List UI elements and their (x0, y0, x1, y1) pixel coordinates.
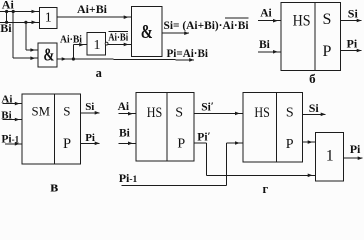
svg-text:Si: Si (85, 101, 94, 113)
svg-text:1: 1 (45, 11, 52, 26)
svg-text:S: S (63, 103, 70, 118)
svg-text:Bi: Bi (259, 39, 271, 51)
svg-text:Ai: Ai (2, 0, 15, 11)
svg-text:Pi: Pi (85, 132, 95, 144)
svg-text:Ai: Ai (118, 101, 130, 113)
svg-text:Ai: Ai (260, 7, 272, 19)
svg-text:Bi: Bi (119, 127, 131, 139)
svg-text:Ai·Bi: Ai·Bi (60, 34, 82, 45)
svg-text:S: S (322, 11, 331, 28)
svg-text:P: P (286, 137, 294, 152)
svg-text:HS: HS (254, 105, 270, 121)
svg-text:Pi: Pi (347, 37, 358, 51)
svg-text:Pi=Ai·Bi: Pi=Ai·Bi (167, 48, 209, 60)
svg-text:Ai·Bi: Ai·Bi (108, 33, 128, 44)
svg-text:1: 1 (326, 148, 334, 165)
svg-text:Si: Si (348, 7, 359, 21)
svg-text:HS: HS (293, 13, 311, 30)
svg-text:&: & (141, 21, 153, 43)
svg-text:Ai+Bi: Ai+Bi (77, 2, 108, 16)
svg-text:в: в (50, 180, 58, 193)
svg-text:HS: HS (147, 105, 163, 121)
svg-text:Pi′: Pi′ (197, 131, 210, 144)
svg-text:г: г (262, 182, 268, 193)
svg-text:Si= (Ai+Bi)·Ai·Bi: Si= (Ai+Bi)·Ai·Bi (164, 20, 250, 32)
svg-text:б: б (309, 71, 316, 86)
svg-text:P: P (177, 137, 185, 152)
svg-text:S: S (286, 106, 294, 121)
svg-text:P: P (322, 43, 331, 60)
svg-text:&: & (43, 45, 54, 65)
svg-text:Pi: Pi (350, 142, 361, 156)
svg-text:Si′: Si′ (201, 100, 214, 113)
svg-text:а: а (96, 66, 103, 80)
svg-text:Si: Si (309, 101, 320, 115)
svg-text:P: P (63, 136, 71, 152)
svg-text:SM: SM (32, 103, 51, 118)
svg-text:S: S (175, 105, 183, 120)
svg-text:1: 1 (94, 38, 101, 53)
